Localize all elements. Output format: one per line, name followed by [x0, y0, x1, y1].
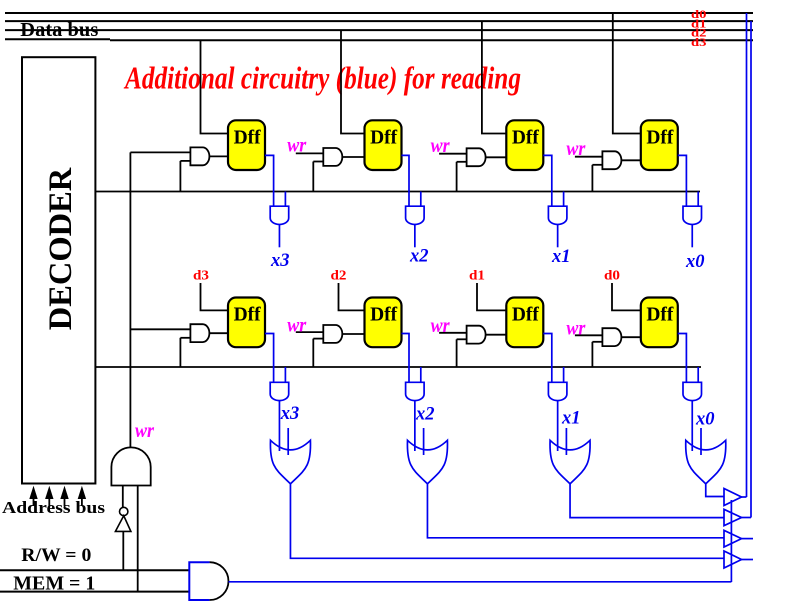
svg-text:Additional circuitry (blue) fo: Additional circuitry (blue) for reading [123, 59, 521, 95]
svg-text:d2: d2 [331, 269, 347, 284]
svg-text:wr: wr [566, 139, 585, 160]
svg-text:Dff: Dff [512, 126, 539, 148]
svg-text:x0: x0 [685, 252, 705, 272]
svg-text:DECODER: DECODER [43, 167, 79, 330]
svg-text:x1: x1 [551, 247, 571, 267]
svg-text:wr: wr [287, 315, 306, 336]
svg-text:wr: wr [287, 136, 306, 157]
svg-text:Dff: Dff [646, 126, 673, 148]
svg-text:d3: d3 [193, 269, 209, 284]
svg-text:wr: wr [566, 319, 585, 340]
svg-text:Address bus: Address bus [2, 498, 106, 517]
svg-text:Data bus: Data bus [20, 19, 98, 41]
svg-text:wr: wr [431, 136, 450, 157]
svg-text:Dff: Dff [646, 304, 673, 326]
svg-text:wr: wr [135, 421, 154, 442]
svg-text:Dff: Dff [234, 126, 261, 148]
svg-text:x2: x2 [409, 247, 429, 267]
svg-text:wr: wr [431, 316, 450, 337]
svg-text:Dff: Dff [234, 304, 261, 326]
svg-text:R/W = 0: R/W = 0 [21, 545, 91, 566]
svg-text:x2: x2 [415, 405, 435, 425]
svg-text:d3: d3 [691, 35, 707, 49]
svg-text:x1: x1 [561, 409, 581, 429]
svg-text:x3: x3 [270, 251, 290, 271]
svg-text:Dff: Dff [370, 126, 397, 148]
svg-text:x0: x0 [695, 410, 715, 430]
svg-text:Dff: Dff [370, 304, 397, 326]
svg-text:Dff: Dff [512, 304, 539, 326]
svg-text:x3: x3 [280, 404, 300, 424]
svg-text:d1: d1 [469, 269, 485, 284]
svg-text:d0: d0 [604, 269, 620, 284]
